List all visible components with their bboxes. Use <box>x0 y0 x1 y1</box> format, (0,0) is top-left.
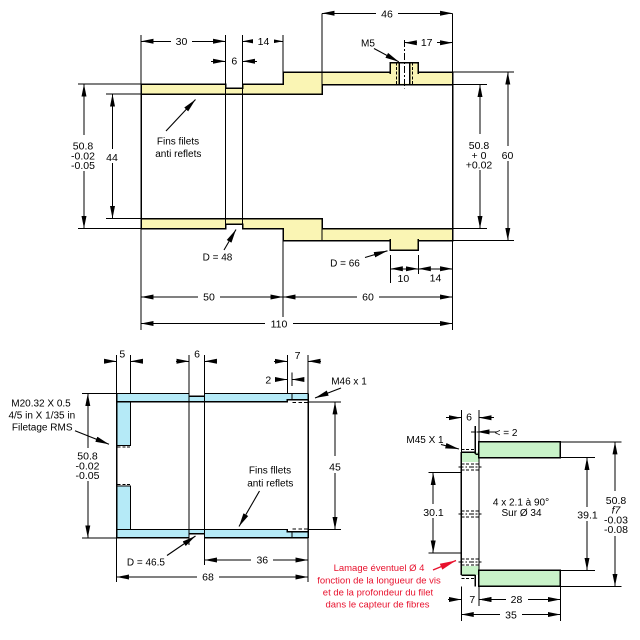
svg-text:M20.32 X 0.5: M20.32 X 0.5 <box>11 399 71 410</box>
svg-text:45: 45 <box>329 462 341 474</box>
svg-text:Sur Ø 34: Sur Ø 34 <box>501 508 541 519</box>
svg-text:D = 66: D = 66 <box>330 259 360 270</box>
svg-text:Fins filets: Fins filets <box>157 136 199 147</box>
svg-text:14: 14 <box>258 36 270 48</box>
svg-text:7: 7 <box>295 350 301 362</box>
svg-text:5: 5 <box>119 349 125 361</box>
svg-text:30: 30 <box>176 36 188 48</box>
svg-text:6: 6 <box>194 349 200 361</box>
svg-text:110: 110 <box>271 319 288 331</box>
svg-text:68: 68 <box>202 572 214 584</box>
svg-text:M5: M5 <box>361 38 375 49</box>
svg-text:6: 6 <box>231 56 237 68</box>
svg-text:-0.05: -0.05 <box>71 160 95 172</box>
svg-text:M45 X 1: M45 X 1 <box>406 435 444 446</box>
svg-text:Filetage RMS: Filetage RMS <box>12 422 73 433</box>
svg-text:10: 10 <box>398 273 410 285</box>
svg-text:anti reflets: anti reflets <box>247 479 293 490</box>
svg-text:39.1: 39.1 <box>577 510 598 522</box>
svg-text:Fins fllets: Fins fllets <box>249 466 291 477</box>
svg-text:17: 17 <box>421 37 433 49</box>
svg-text:et de la profondeur du filet: et de la profondeur du filet <box>323 588 434 599</box>
svg-text:30.1: 30.1 <box>423 507 444 519</box>
svg-text:60: 60 <box>362 292 374 304</box>
svg-text:Lamage éventuel Ø 4: Lamage éventuel Ø 4 <box>334 563 425 574</box>
svg-text:46: 46 <box>381 9 393 21</box>
svg-text:4/5 in X 1/35 in: 4/5 in X 1/35 in <box>8 411 75 422</box>
svg-text:fonction de la longueur de vis: fonction de la longueur de vis <box>317 576 441 587</box>
svg-text:35: 35 <box>505 610 517 622</box>
svg-text:6: 6 <box>466 412 472 424</box>
svg-text:dans le capteur de fibres: dans le capteur de fibres <box>325 600 429 611</box>
svg-text:14: 14 <box>430 273 442 285</box>
svg-text:2: 2 <box>265 374 271 386</box>
svg-text:4 x 2.1 à 90°: 4 x 2.1 à 90° <box>493 497 549 508</box>
svg-text:7: 7 <box>469 594 475 606</box>
svg-text:50: 50 <box>203 292 215 304</box>
svg-text:44: 44 <box>106 152 118 164</box>
svg-text:D = 46.5: D = 46.5 <box>127 558 166 569</box>
svg-text:D = 48: D = 48 <box>203 253 233 264</box>
svg-text:-0.08: -0.08 <box>604 524 628 536</box>
svg-text:+0.02: +0.02 <box>466 160 493 172</box>
svg-text:M46 x 1: M46 x 1 <box>331 376 367 387</box>
svg-text:36: 36 <box>256 555 268 567</box>
svg-text:anti reflets: anti reflets <box>155 149 201 160</box>
svg-text:< = 2: < = 2 <box>495 428 518 439</box>
svg-text:60: 60 <box>502 150 514 162</box>
svg-text:28: 28 <box>511 594 523 606</box>
svg-text:-0.05: -0.05 <box>76 470 100 482</box>
